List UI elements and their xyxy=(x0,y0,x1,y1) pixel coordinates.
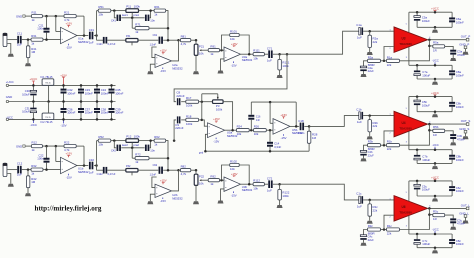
svg-text:OUT_S: OUT_S xyxy=(461,119,471,123)
supply +UCC tag xyxy=(434,11,436,13)
svg-text:1R: 1R xyxy=(433,133,437,137)
wire caps to ground xyxy=(417,162,452,164)
svg-text:IC1 78L15: IC1 78L15 xyxy=(41,75,54,79)
resistor R41 1M vertical xyxy=(27,40,29,46)
resistor R72 1k xyxy=(131,148,133,158)
op-amp U21 NE5532 filter A xyxy=(155,54,172,67)
svg-text:R1c: R1c xyxy=(387,224,393,228)
capacitor C37 100nF lower xyxy=(80,102,82,109)
junction xyxy=(149,139,152,142)
capacitor C5b 100uF xyxy=(416,97,418,101)
net -UCC rail xyxy=(409,149,452,151)
wire summing node xyxy=(201,102,203,120)
wire to -in xyxy=(202,120,208,126)
svg-text:1k: 1k xyxy=(135,30,139,34)
svg-text:10n: 10n xyxy=(150,148,155,152)
svg-text:R32: R32 xyxy=(31,164,37,168)
junction xyxy=(113,139,116,142)
svg-text:R31: R31 xyxy=(31,34,37,38)
svg-text:P22: P22 xyxy=(199,174,205,178)
svg-text:10k: 10k xyxy=(98,13,103,17)
pot wiper stub xyxy=(131,42,133,45)
svg-text:R82: R82 xyxy=(181,165,187,169)
junction xyxy=(45,168,48,171)
wire top pin to +UCC xyxy=(408,12,410,32)
svg-text:C12: C12 xyxy=(17,162,23,166)
capacitor C31 100uF xyxy=(32,102,34,108)
svg-text:-UCC: -UCC xyxy=(432,227,439,231)
wire -in xyxy=(384,47,394,61)
svg-text:+15V: +15V xyxy=(160,178,167,182)
svg-text:C121: C121 xyxy=(97,43,104,46)
capacitor C16 1nF feedback xyxy=(250,120,252,130)
resistor R3a 680R xyxy=(368,59,381,62)
wire -in xyxy=(269,101,272,104)
capacitor C62 1,5nF xyxy=(159,167,161,174)
supply +15V xyxy=(233,46,235,47)
resistor R21 4,7k xyxy=(64,14,76,17)
wire jack tip xyxy=(7,39,17,41)
supply +15V tag xyxy=(63,77,65,85)
ground C4b xyxy=(361,158,367,161)
svg-text:100k: 100k xyxy=(134,134,141,138)
svg-text:OUT_L: OUT_L xyxy=(461,203,471,207)
capacitor C122 0,47uF xyxy=(103,167,105,174)
ground op-amp U3 xyxy=(218,201,224,204)
svg-text:-UCC: -UCC xyxy=(6,115,13,119)
resistor R102 10k feedback xyxy=(230,163,240,166)
svg-text:100uF: 100uF xyxy=(22,110,30,114)
svg-text:1k: 1k xyxy=(210,182,214,186)
svg-text:R112: R112 xyxy=(253,179,260,183)
svg-text:R1b: R1b xyxy=(387,140,393,144)
junction xyxy=(416,95,419,98)
svg-text:+UCC: +UCC xyxy=(431,175,439,179)
svg-text:1k: 1k xyxy=(154,143,158,147)
svg-text:C31: C31 xyxy=(89,28,95,32)
connector jack WE1 xyxy=(3,33,7,46)
svg-text:1R: 1R xyxy=(433,217,437,221)
supply +15V op-amp U1 xyxy=(68,26,70,28)
junction xyxy=(83,164,86,167)
svg-text:R92: R92 xyxy=(210,175,216,179)
svg-text:220nF: 220nF xyxy=(176,94,184,98)
svg-text:R1a: R1a xyxy=(387,55,393,59)
capacitor C4b 22uF xyxy=(364,145,368,150)
svg-text:100n: 100n xyxy=(37,27,44,31)
svg-text:1k: 1k xyxy=(210,52,214,56)
ground supply bottom xyxy=(432,250,438,253)
wire to filter xyxy=(96,141,98,166)
svg-text:100nF: 100nF xyxy=(85,91,93,95)
capacitor C7a 100uF xyxy=(416,65,418,70)
svg-text:-15V: -15V xyxy=(66,176,72,180)
ground supply bottom xyxy=(432,166,438,169)
svg-text:3,3nF: 3,3nF xyxy=(274,145,281,149)
wire pot gnd xyxy=(195,185,197,201)
svg-text:R102: R102 xyxy=(230,160,237,164)
wire feedback loop xyxy=(222,35,230,50)
junction xyxy=(416,64,419,67)
ground op-amp U2 xyxy=(147,71,153,74)
capacitor C1c 1uF input xyxy=(359,196,361,204)
wire zobel xyxy=(445,215,454,218)
svg-text:TDA2030: TDA2030 xyxy=(399,42,412,46)
connector jack WE2 xyxy=(3,163,7,176)
svg-text:4,7k: 4,7k xyxy=(181,172,187,176)
svg-text:C122: C122 xyxy=(97,173,104,176)
wire jack tip xyxy=(7,169,17,171)
junction xyxy=(416,148,419,151)
svg-text:C62: C62 xyxy=(153,164,158,167)
junction xyxy=(383,144,386,147)
ground supply top xyxy=(432,114,438,117)
svg-text:22uF: 22uF xyxy=(368,238,374,242)
voltage regulator IC2 79L15 xyxy=(42,113,54,120)
junction xyxy=(167,27,170,30)
svg-text:P11: P11 xyxy=(126,4,131,8)
resistor R61 1k xyxy=(154,9,166,12)
ground op-amp U3 xyxy=(218,71,224,74)
junction xyxy=(368,30,371,33)
ground zobel xyxy=(450,58,456,61)
capacitor C51 10nF xyxy=(145,15,147,21)
resistor R82 4,7k xyxy=(180,169,190,172)
potentiometer P31 100k treble xyxy=(126,38,138,42)
power amp U3 TDA2030 xyxy=(394,27,428,53)
svg-text:100nF: 100nF xyxy=(456,189,464,193)
resistor R3c 680R xyxy=(368,228,381,231)
junction xyxy=(428,207,431,210)
svg-text:1,5nF: 1,5nF xyxy=(150,44,157,47)
svg-text:100uF: 100uF xyxy=(422,188,430,192)
svg-text:-15V: -15V xyxy=(160,69,166,73)
junction xyxy=(96,84,99,87)
capacitor C7c 100uF xyxy=(416,234,418,239)
wire caps to ground xyxy=(417,78,452,80)
capacitor C4a 22uF xyxy=(364,61,368,66)
svg-text:100k: 100k xyxy=(134,4,141,8)
svg-text:-UCC: -UCC xyxy=(432,143,439,147)
net +UCC rail xyxy=(409,11,452,13)
wire -in stub xyxy=(152,177,157,188)
junction xyxy=(113,9,116,12)
net -UCC rail xyxy=(409,233,452,235)
svg-text:+15V: +15V xyxy=(60,73,67,77)
wire pot gnd xyxy=(195,55,197,71)
junction xyxy=(62,84,65,87)
svg-text:220n: 220n xyxy=(298,131,305,135)
wire output xyxy=(428,39,467,41)
svg-text:NE5532: NE5532 xyxy=(172,196,183,200)
svg-text:C61: C61 xyxy=(153,34,158,37)
supply -15V xyxy=(162,198,164,200)
svg-text:P21: P21 xyxy=(199,44,205,48)
svg-text:10k: 10k xyxy=(230,37,235,41)
capacitor C6c 100nF xyxy=(451,181,453,186)
svg-text:+15V: +15V xyxy=(231,42,238,46)
connector GND xyxy=(6,100,8,102)
supply -15V xyxy=(162,68,164,70)
svg-text:470nF: 470nF xyxy=(457,53,465,57)
wire IC1 gnd xyxy=(48,85,50,101)
capacitor C8b 100nF xyxy=(451,150,453,155)
ground C4c xyxy=(361,243,367,246)
svg-text:R12: R12 xyxy=(32,141,38,145)
svg-text:R71: R71 xyxy=(135,23,141,27)
junction xyxy=(83,34,86,37)
wire caps to ground xyxy=(417,195,452,197)
connector +UCC xyxy=(6,84,8,86)
wire feedback xyxy=(83,16,85,35)
wire branch from channel 1 xyxy=(286,53,289,56)
svg-text:1uF: 1uF xyxy=(89,40,94,44)
wire cap loop xyxy=(114,11,116,18)
resistor R111 10k xyxy=(253,53,264,56)
wire output xyxy=(428,123,467,125)
wire top pin to +UCC xyxy=(408,97,410,117)
junction xyxy=(27,38,30,41)
pot wiper xyxy=(131,143,133,148)
svg-text:100nF: 100nF xyxy=(101,111,109,115)
capacitor C3b 470nF zobel xyxy=(450,134,456,136)
power amp U4 TDA2030 xyxy=(394,111,428,137)
wire op-amp output xyxy=(77,35,88,37)
svg-text:22k: 22k xyxy=(387,232,392,236)
ground R4 xyxy=(25,63,31,66)
capacitor C14 3,3nF to gnd xyxy=(269,130,271,142)
capacitor C11 1uF xyxy=(17,36,19,44)
junction xyxy=(167,39,170,42)
resistor R51 10k xyxy=(98,9,111,12)
svg-text:P32: P32 xyxy=(126,165,131,168)
svg-text:GND: GND xyxy=(16,144,22,148)
net -UCC rail xyxy=(9,118,116,120)
supply -15V op-amp U1 xyxy=(68,44,70,46)
junction xyxy=(195,169,198,172)
svg-text:100uF: 100uF xyxy=(422,19,430,23)
svg-text:1M: 1M xyxy=(312,136,317,140)
potentiometer P12 100k volume xyxy=(126,139,139,143)
ground zobel xyxy=(450,142,456,145)
svg-text:100k: 100k xyxy=(282,64,289,68)
supply -15V xyxy=(215,138,217,140)
svg-text:1uF: 1uF xyxy=(357,204,362,208)
svg-text:1uF: 1uF xyxy=(17,173,22,177)
junction xyxy=(278,53,281,56)
junction xyxy=(428,38,431,41)
junction xyxy=(428,123,431,126)
svg-text:0,47uF: 0,47uF xyxy=(108,173,116,176)
wire cap loop xyxy=(114,141,116,148)
pot wiper xyxy=(199,179,201,181)
op-amp U22 NE5532 filter A xyxy=(155,184,172,197)
potentiometer P21 10k xyxy=(195,40,197,44)
junction xyxy=(368,199,371,202)
voltage regulator IC1 78L15 xyxy=(42,79,54,86)
svg-text:79L15: 79L15 xyxy=(45,117,51,119)
svg-text:R5a: R5a xyxy=(433,41,439,45)
resistor R17 100k xyxy=(186,100,199,103)
capacitor C121 0,47uF xyxy=(103,37,105,44)
svg-text:78L15: 78L15 xyxy=(45,83,51,85)
resistor R62 1k xyxy=(154,139,166,142)
ground supply top xyxy=(432,30,438,33)
svg-text:NE5532: NE5532 xyxy=(242,188,253,192)
op-amp U5b NE5532 lowpass xyxy=(273,119,290,135)
svg-text:10k: 10k xyxy=(199,52,204,56)
svg-text:100nF: 100nF xyxy=(456,105,464,109)
capacitor C8a 100nF xyxy=(451,65,453,70)
resistor R2a 22k vertical xyxy=(369,31,371,35)
svg-text:5: 5 xyxy=(406,24,407,26)
junction xyxy=(195,39,198,42)
wire channel1 to amp U3 xyxy=(280,31,359,54)
capacitor C72 1uF xyxy=(268,180,270,188)
wire -in stub xyxy=(152,47,157,58)
svg-text:470nF: 470nF xyxy=(457,222,465,226)
svg-text:100uF: 100uF xyxy=(422,103,430,107)
supply +15V xyxy=(282,117,284,119)
wire treble row xyxy=(96,166,98,171)
junction xyxy=(45,15,48,18)
svg-text:GND: GND xyxy=(6,95,12,99)
junction xyxy=(428,45,431,48)
svg-text:-15V: -15V xyxy=(281,136,287,140)
net GND rail xyxy=(9,101,116,103)
junction xyxy=(220,49,223,52)
resistor R31 1k xyxy=(31,38,43,41)
svg-text:C32: C32 xyxy=(89,158,95,162)
op-amp U5a NE5532 summer xyxy=(208,123,225,138)
svg-text:100nF: 100nF xyxy=(67,91,75,95)
resistor R1b 22k feedback xyxy=(387,144,400,147)
potentiometer P22 10k xyxy=(195,170,197,174)
junction xyxy=(149,9,152,12)
junction xyxy=(416,180,419,183)
capacitor C6a 100nF xyxy=(451,12,453,17)
wire +in to ground xyxy=(150,194,155,201)
capacitor C22 100nF xyxy=(46,146,48,158)
supply +15V xyxy=(215,121,217,123)
wire output xyxy=(225,129,237,131)
pot wiper xyxy=(131,13,133,18)
net -UCC tag xyxy=(434,231,436,234)
junction xyxy=(368,114,371,117)
svg-text:100nF: 100nF xyxy=(67,111,75,115)
svg-text:1uF: 1uF xyxy=(267,58,272,62)
svg-text:U3: U3 xyxy=(401,36,405,40)
supply +15V xyxy=(162,53,164,55)
wire channel2 to amp U6 xyxy=(280,184,359,200)
svg-text:GND: GND xyxy=(16,14,22,18)
svg-text:-15V: -15V xyxy=(231,64,237,68)
svg-text:22uF: 22uF xyxy=(368,154,374,158)
junction xyxy=(95,34,98,37)
svg-text:-15V: -15V xyxy=(160,199,166,203)
svg-text:R61: R61 xyxy=(154,5,160,9)
net -UCC tag xyxy=(434,147,436,150)
svg-text:100nF: 100nF xyxy=(85,111,93,115)
svg-text:lew1: lew1 xyxy=(122,13,128,17)
op-amp U11 NE5532 preamp xyxy=(61,27,78,43)
resistor R2b 22k vertical xyxy=(369,116,371,120)
svg-text:22k: 22k xyxy=(373,40,378,44)
wire feedback xyxy=(400,40,430,61)
ground P2 xyxy=(193,71,199,74)
junction xyxy=(131,147,134,150)
svg-text:R3a: R3a xyxy=(368,55,374,59)
svg-text:100uF: 100uF xyxy=(22,92,30,96)
supply -15V op-amp U1 xyxy=(68,174,70,176)
svg-text:U6: U6 xyxy=(401,205,405,209)
svg-text:22k: 22k xyxy=(387,63,392,67)
wire bottom pin to -UCC xyxy=(408,47,410,66)
capacitor C12 1uF xyxy=(17,166,19,174)
svg-text:C41: C41 xyxy=(111,18,116,22)
resistor R11 1k xyxy=(31,14,42,17)
svg-text:1uF: 1uF xyxy=(17,43,22,47)
wire bottom pin to -UCC xyxy=(408,131,410,150)
resistor R22 4,7k xyxy=(64,144,76,147)
ground P2 xyxy=(193,201,199,204)
net -UCC rail xyxy=(409,64,452,66)
svg-text:R17: R17 xyxy=(186,96,192,100)
resistor R1a 22k feedback xyxy=(387,59,400,62)
svg-text:5: 5 xyxy=(406,192,407,194)
resistor R121 100k vertical xyxy=(279,54,281,59)
ground R12 xyxy=(277,205,283,208)
junction xyxy=(45,145,48,148)
svg-text:1R: 1R xyxy=(433,48,437,52)
svg-text:100k: 100k xyxy=(186,104,193,108)
resistor R28 1M vertical xyxy=(308,126,310,131)
capacitor C35 100nF upper xyxy=(111,85,113,88)
junction xyxy=(201,119,204,122)
junction xyxy=(167,157,170,160)
svg-text:R18: R18 xyxy=(186,114,192,118)
capacitor C71 1uF xyxy=(268,50,270,58)
net +UCC rail xyxy=(409,96,452,98)
svg-text:-15V: -15V xyxy=(231,194,237,198)
svg-text:1uF: 1uF xyxy=(89,170,94,174)
svg-text:+15V: +15V xyxy=(160,48,167,52)
svg-text:+15V: +15V xyxy=(213,117,220,121)
potentiometer P32 100k treble xyxy=(126,168,138,172)
resistor R26 10k xyxy=(254,129,267,132)
svg-text:R3b: R3b xyxy=(368,140,374,144)
svg-text:pra1: pra1 xyxy=(133,13,139,17)
resistor R52 10k xyxy=(98,139,111,142)
wire xyxy=(166,141,168,171)
connector -UCC xyxy=(6,118,8,120)
svg-text:NE5532: NE5532 xyxy=(172,66,183,70)
capacitor C36 100nF lower xyxy=(63,102,65,109)
junction xyxy=(383,60,386,63)
capacitor C34 100nF upper xyxy=(96,85,98,88)
wire treble row xyxy=(96,36,98,41)
net +UCC rail xyxy=(409,180,452,182)
svg-text:R26: R26 xyxy=(254,125,260,129)
svg-text:C18: C18 xyxy=(298,119,304,123)
wire IC2 gnd xyxy=(48,102,50,114)
svg-text:C42: C42 xyxy=(111,148,116,152)
wire feedback xyxy=(400,124,430,145)
capacitor C18 220nF xyxy=(300,123,302,131)
svg-text:1nF: 1nF xyxy=(256,119,261,122)
supply +UCC tag xyxy=(434,179,436,181)
ground jack xyxy=(8,184,14,187)
